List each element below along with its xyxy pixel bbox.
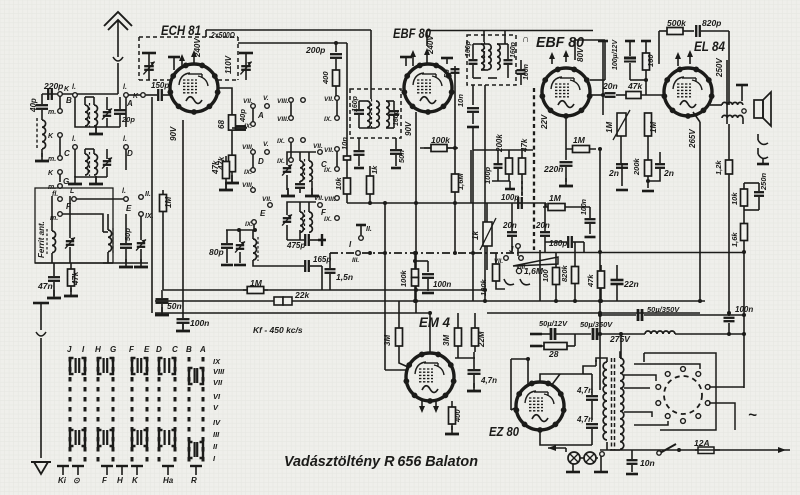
svg-text:D: D xyxy=(258,157,264,166)
svg-text:IX.: IX. xyxy=(244,169,252,176)
svg-text:VIII.: VIII. xyxy=(277,116,289,123)
svg-text:EZ 80: EZ 80 xyxy=(489,424,520,439)
svg-text:240V: 240V xyxy=(193,38,202,58)
svg-text:100n: 100n xyxy=(581,199,588,215)
svg-text:1M: 1M xyxy=(164,197,173,208)
svg-text:20p: 20p xyxy=(121,115,135,124)
svg-text:50µ/350V: 50µ/350V xyxy=(647,305,680,314)
svg-text:20n: 20n xyxy=(535,221,550,230)
svg-text:50p: 50p xyxy=(123,228,132,241)
svg-text:A: A xyxy=(257,111,264,120)
svg-text:EM 4: EM 4 xyxy=(419,314,450,330)
svg-text:100n: 100n xyxy=(433,280,451,289)
svg-text:II.: II. xyxy=(145,191,151,198)
svg-text:V.: V. xyxy=(263,141,269,148)
svg-text:1,6M: 1,6M xyxy=(456,173,465,190)
svg-text:180p: 180p xyxy=(549,239,567,248)
svg-text:5p: 5p xyxy=(442,69,451,78)
svg-text:1M: 1M xyxy=(649,122,658,133)
svg-text:20n: 20n xyxy=(502,221,517,230)
svg-text:1k: 1k xyxy=(471,231,480,240)
svg-text:4,7n: 4,7n xyxy=(576,415,593,424)
svg-text:220n: 220n xyxy=(543,164,563,174)
svg-text:1M: 1M xyxy=(573,135,586,145)
svg-text:C: C xyxy=(172,345,178,354)
svg-text:10n: 10n xyxy=(456,94,465,107)
svg-text:IX.: IX. xyxy=(277,138,285,145)
svg-text:100k: 100k xyxy=(399,269,408,287)
svg-text:22k: 22k xyxy=(294,290,310,300)
svg-text:J: J xyxy=(67,345,72,354)
svg-text:l.: l. xyxy=(123,84,127,91)
svg-text:1k: 1k xyxy=(370,165,379,174)
svg-text:IX.: IX. xyxy=(277,158,285,165)
svg-text:400: 400 xyxy=(453,409,462,423)
svg-text:1M: 1M xyxy=(605,122,614,133)
svg-text:47k: 47k xyxy=(627,81,643,91)
svg-text:D: D xyxy=(156,345,162,354)
svg-text:50µ/12V: 50µ/12V xyxy=(539,319,568,328)
svg-text:J: J xyxy=(509,245,514,254)
svg-text:200k: 200k xyxy=(632,157,641,176)
svg-text:90V: 90V xyxy=(169,126,178,141)
svg-text:80V: 80V xyxy=(576,47,585,62)
svg-text:Kf - 450 kc/s: Kf - 450 kc/s xyxy=(253,325,303,335)
svg-text:22V: 22V xyxy=(540,114,549,130)
svg-text:100k: 100k xyxy=(431,135,451,145)
svg-text:VII.: VII. xyxy=(262,196,272,203)
svg-text:H: H xyxy=(117,476,123,485)
svg-text:47k: 47k xyxy=(211,160,220,175)
svg-text:m.: m. xyxy=(48,109,56,116)
svg-text:A: A xyxy=(126,99,133,108)
svg-text:820p: 820p xyxy=(702,18,721,28)
svg-text:IX.: IX. xyxy=(324,216,332,223)
svg-text:500k: 500k xyxy=(667,18,687,28)
svg-text:l.: l. xyxy=(123,136,127,143)
svg-text:IX.: IX. xyxy=(324,116,332,123)
svg-text:Vadásztöltény R 656 Balaton: Vadásztöltény R 656 Balaton xyxy=(284,454,478,470)
svg-text:VII.: VII. xyxy=(324,147,334,154)
svg-text:IX: IX xyxy=(213,357,221,366)
svg-text:E: E xyxy=(126,204,132,213)
svg-text:⊙: ⊙ xyxy=(73,476,80,485)
svg-text:80p: 80p xyxy=(209,247,224,257)
svg-text:Ki: Ki xyxy=(58,476,67,485)
svg-text:250V: 250V xyxy=(715,58,724,78)
svg-text:~: ~ xyxy=(748,407,757,424)
svg-text:A: A xyxy=(199,345,206,354)
svg-text:100p: 100p xyxy=(483,166,492,184)
svg-text:R: R xyxy=(191,476,197,485)
svg-text:100n: 100n xyxy=(735,305,753,314)
svg-text:L: L xyxy=(70,188,74,195)
svg-text:47n: 47n xyxy=(37,281,53,291)
svg-text:4,7n: 4,7n xyxy=(576,386,593,395)
svg-text:100: 100 xyxy=(541,269,550,282)
svg-text:100n: 100n xyxy=(190,318,209,328)
svg-text:2×500Ω: 2×500Ω xyxy=(210,31,235,40)
svg-text:VII.: VII. xyxy=(314,195,324,202)
svg-text:100n: 100n xyxy=(523,64,530,80)
svg-text:200p: 200p xyxy=(305,45,325,55)
svg-text:265V: 265V xyxy=(688,129,697,149)
svg-text:40p: 40p xyxy=(238,109,247,123)
svg-text:l.: l. xyxy=(72,84,76,91)
svg-text:III.: III. xyxy=(352,257,359,264)
svg-text:E: E xyxy=(144,345,150,354)
svg-text:Ha: Ha xyxy=(163,476,174,485)
svg-text:VII.: VII. xyxy=(313,143,323,150)
svg-text:IX.: IX. xyxy=(324,167,332,174)
svg-text:II.: II. xyxy=(366,226,372,233)
svg-text:2n: 2n xyxy=(663,168,674,178)
svg-text:VII.: VII. xyxy=(324,96,334,103)
svg-text:28: 28 xyxy=(548,349,559,359)
svg-text:47k: 47k xyxy=(71,271,80,286)
svg-text:1M: 1M xyxy=(250,278,263,288)
svg-text:160p: 160p xyxy=(510,41,517,58)
svg-text:G: G xyxy=(110,345,116,354)
svg-text:3M: 3M xyxy=(442,335,451,346)
svg-text:VIII.: VIII. xyxy=(324,196,336,203)
svg-text:m.: m. xyxy=(50,215,58,222)
svg-text:l.: l. xyxy=(72,136,76,143)
svg-text:50n: 50n xyxy=(167,301,182,311)
svg-text:C: C xyxy=(64,149,70,158)
svg-text:2n: 2n xyxy=(608,168,619,178)
svg-text:50n: 50n xyxy=(397,150,406,163)
svg-text:165p: 165p xyxy=(313,255,331,264)
svg-text:V.: V. xyxy=(263,95,269,102)
svg-text:VII.: VII. xyxy=(243,98,253,105)
svg-text:4,7n: 4,7n xyxy=(480,376,497,385)
svg-text:10n: 10n xyxy=(640,458,655,468)
svg-text:110V: 110V xyxy=(224,55,233,74)
svg-text:B: B xyxy=(66,96,72,105)
svg-text:III: III xyxy=(213,430,220,439)
svg-text:IX.: IX. xyxy=(244,123,252,130)
svg-text:22M: 22M xyxy=(477,331,486,348)
svg-text:820k: 820k xyxy=(560,264,569,282)
svg-text:D: D xyxy=(127,149,133,158)
svg-text:1,6k: 1,6k xyxy=(730,232,739,247)
svg-text:1,5n: 1,5n xyxy=(336,272,353,282)
svg-text:H: H xyxy=(95,345,101,354)
svg-text:VIII: VIII xyxy=(213,367,225,376)
svg-text:VIII.: VIII. xyxy=(277,98,289,105)
svg-text:Ferrit ant.: Ferrit ant. xyxy=(37,221,46,258)
svg-text:VIII.: VIII. xyxy=(242,182,254,189)
svg-text:22n: 22n xyxy=(623,279,639,289)
svg-text:VI: VI xyxy=(213,392,221,401)
svg-text:ECH 81: ECH 81 xyxy=(161,22,201,38)
svg-text:100µ/12V: 100µ/12V xyxy=(612,39,619,70)
svg-text:160: 160 xyxy=(646,54,655,67)
svg-text:150p: 150p xyxy=(151,81,169,90)
svg-text:47k: 47k xyxy=(586,274,595,288)
svg-text:B: B xyxy=(186,345,192,354)
svg-text:VIII.: VIII. xyxy=(242,144,254,151)
svg-text:475p: 475p xyxy=(286,241,305,250)
svg-text:10k: 10k xyxy=(334,177,343,190)
svg-text:10k: 10k xyxy=(730,192,739,205)
svg-text:220p: 220p xyxy=(43,81,63,91)
svg-text:IX.: IX. xyxy=(245,221,253,228)
svg-text:l.: l. xyxy=(122,188,126,195)
svg-text:250n: 250n xyxy=(759,172,768,191)
svg-text:1M: 1M xyxy=(549,193,562,203)
svg-text:20n: 20n xyxy=(602,81,618,91)
svg-text:E: E xyxy=(260,209,266,218)
svg-text:EL 84: EL 84 xyxy=(694,38,725,54)
svg-text:fl.: fl. xyxy=(52,191,58,198)
svg-text:100p: 100p xyxy=(501,193,519,202)
svg-text:VII: VII xyxy=(213,378,223,387)
svg-text:90V: 90V xyxy=(404,121,413,136)
svg-text:100k: 100k xyxy=(479,278,488,296)
svg-text:68: 68 xyxy=(217,120,226,129)
svg-text:1,2k: 1,2k xyxy=(714,160,723,175)
svg-text:400: 400 xyxy=(321,71,330,85)
svg-text:m.: m. xyxy=(48,156,56,163)
svg-text:50µ/350V: 50µ/350V xyxy=(580,320,613,329)
svg-text:∩: ∩ xyxy=(522,34,529,45)
svg-text:160p: 160p xyxy=(465,40,472,57)
svg-text:IV: IV xyxy=(213,418,221,427)
